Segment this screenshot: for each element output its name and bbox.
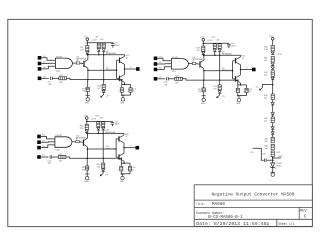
negative supply arrow [102, 172, 104, 173]
transistor Q11 MPS6534A (PNP) [83, 140, 84, 146]
diode CR5 [97, 49, 100, 52]
connector pad J2-3 [154, 68, 158, 72]
diode CR23 [271, 77, 274, 79]
svg-text:GND: GND [85, 181, 90, 183]
svg-text:470: 470 [213, 88, 216, 90]
resistor R14 470 [103, 79, 105, 81]
diode CR25 [271, 113, 274, 115]
ground [237, 93, 239, 96]
diode CR10 [219, 89, 221, 92]
svg-text:Date: 8/29/2013 11:59:45p: Date: 8/29/2013 11:59:45p [196, 222, 269, 227]
wire Q collector up [86, 133, 88, 138]
resistor R33 100 [87, 158, 89, 160]
svg-text:D5: D5 [43, 140, 45, 142]
resistor R32 47K [52, 156, 59, 158]
svg-text:+4.2V: +4.2V [91, 40, 97, 42]
svg-text:D4: D4 [159, 57, 161, 59]
diode CR10 [85, 130, 88, 132]
svg-text:D4: D4 [43, 135, 45, 137]
svg-text:.0047: .0047 [114, 124, 119, 126]
resistor R42 100 [271, 71, 274, 77]
svg-text:+4.2V: +4.2V [207, 40, 213, 42]
resistor R8 220 [86, 46, 89, 51]
svg-text:MPS6503A: MPS6503A [105, 147, 115, 150]
node output tap branch [253, 148, 264, 160]
svg-text:U2C: U2C [172, 71, 177, 73]
wire base resistor to Q base [79, 141, 83, 144]
svg-text:MPS6503A: MPS6503A [222, 53, 232, 56]
svg-text:100: 100 [265, 141, 268, 143]
resistor R45 100 [271, 137, 274, 143]
svg-text:100: 100 [264, 74, 267, 76]
diode CR24 [271, 103, 274, 105]
negative supply arrow [259, 88, 262, 91]
svg-text:74C08: 74C08 [55, 135, 62, 137]
zener diode CR40 [272, 157, 274, 164]
resistor R34 470 [102, 158, 104, 160]
svg-text:100: 100 [198, 91, 201, 93]
wire bottom rail [182, 79, 237, 80]
resistor R44 100 [271, 117, 274, 123]
svg-text:U2B: U2B [55, 149, 60, 151]
diode CR4 [86, 51, 89, 53]
svg-text:100: 100 [265, 148, 268, 150]
node output OUT2 [240, 69, 242, 71]
ground [121, 92, 123, 95]
title block [194, 185, 312, 227]
resistor R46 100 [271, 144, 274, 150]
wire Q collector up [203, 55, 205, 60]
svg-text:D6: D6 [43, 67, 45, 69]
wire emitter to base rail [87, 148, 116, 150]
resistor R43 100 [271, 94, 274, 100]
svg-text:R12: R12 [59, 75, 62, 77]
diode CR22 [271, 67, 274, 69]
svg-text:B-CO-MA580-B-1: B-CO-MA580-B-1 [208, 216, 243, 220]
capacitor C11 .001 [157, 78, 165, 80]
node tap branch [272, 84, 274, 86]
resistor R41 100 [271, 57, 274, 63]
resistor R47 100 [271, 151, 274, 157]
ground [120, 171, 122, 174]
capacitor C13 .001 [41, 156, 49, 158]
svg-text:Title:: Title: [196, 202, 205, 207]
transistor Q4 MPS6534A (PNP) [199, 61, 200, 67]
connector pad J2-4 [154, 77, 158, 81]
svg-text:.001: .001 [48, 84, 52, 86]
resistor R18 220 [202, 46, 205, 51]
svg-text:MPS6503A: MPS6503A [106, 52, 116, 55]
transistor Q7 MPS6534A (PNP) [83, 61, 84, 67]
wire Q collector up [87, 55, 89, 60]
svg-text:Sheet 1/1: Sheet 1/1 [278, 222, 294, 227]
ground [272, 167, 274, 172]
svg-text:R22: R22 [175, 76, 178, 78]
svg-text:Negative Output Converter MA58: Negative Output Converter MA580 [212, 191, 295, 197]
wire pad3 to gate input 3 [41, 145, 55, 148]
svg-text:MPS6503A: MPS6503A [105, 131, 115, 134]
wire bottom rail [66, 157, 121, 158]
ground [203, 92, 205, 96]
svg-text:100: 100 [82, 169, 85, 171]
capacitor C16 0.1uF [264, 159, 266, 162]
diode CR8 [213, 49, 216, 52]
wire base resistor to Q base [80, 62, 84, 65]
wire pad3 to gate input 3 [157, 67, 171, 70]
wire emitter to base rail [88, 69, 117, 71]
connector pad J1-2 [38, 62, 42, 66]
svg-text:GND: GND [85, 103, 90, 105]
diode CR20 [271, 52, 274, 54]
wire pad3 to gate input 3 [41, 66, 55, 69]
svg-text:2: 2 [246, 68, 247, 70]
resistor R28 220 [85, 124, 88, 129]
svg-text:C16: C16 [250, 152, 253, 154]
wire pad2 to gate input 2 [157, 63, 171, 65]
capacitor C9 .001 [41, 77, 49, 79]
wire Q emitter down [87, 68, 89, 79]
svg-text:2: 2 [130, 146, 131, 148]
capacitor C10 [121, 79, 123, 81]
base resistor R17 [188, 63, 192, 65]
capacitor C12 [237, 79, 239, 81]
connector pad J1-4 [38, 77, 42, 81]
negative supply arrow [103, 93, 105, 94]
svg-text:20: 20 [133, 91, 135, 93]
capacitor C12 .0047 [111, 120, 113, 123]
connector pad J3-1 [37, 135, 41, 139]
svg-text:100: 100 [264, 60, 267, 62]
svg-text:.0047: .0047 [231, 45, 236, 47]
AND gate U2B 74C08 [55, 137, 72, 148]
wire bottom rail [66, 78, 121, 79]
resistor R40 2.2K [271, 45, 274, 51]
diode CR13 [102, 167, 104, 170]
svg-text:220: 220 [80, 49, 83, 51]
resistor R12 47K [52, 77, 59, 79]
svg-text:220: 220 [196, 50, 199, 52]
svg-text:.001: .001 [47, 163, 51, 165]
svg-text:.001: .001 [164, 84, 168, 86]
resistor R30 1.0K [102, 122, 105, 127]
diode CR6 [102, 49, 105, 52]
svg-text:MPS6503A: MPS6503A [106, 69, 116, 72]
svg-text:47: 47 [242, 58, 244, 60]
sheet border frame [8, 19, 313, 226]
svg-text:2: 2 [130, 67, 131, 69]
wire pad1 to gate input 1 [41, 58, 55, 60]
node rail1 [87, 120, 113, 122]
svg-text:100: 100 [82, 91, 85, 93]
capacitor C13 [246, 85, 248, 88]
svg-text:74C08: 74C08 [172, 57, 179, 59]
svg-text:GND: GND [201, 103, 206, 105]
svg-text:1N752: 1N752 [276, 163, 282, 165]
diode CR7 [202, 52, 205, 54]
capacitor C8 .0047 [112, 42, 114, 45]
base resistor R27 [72, 141, 76, 143]
svg-text:.0047: .0047 [115, 45, 120, 47]
wire base resistor to Q base [196, 63, 200, 66]
svg-text:MPS6534A: MPS6534A [76, 136, 86, 139]
ground [87, 91, 89, 95]
svg-text:D6: D6 [43, 146, 45, 148]
wire emitter to base rail [204, 70, 233, 72]
svg-text:220: 220 [80, 128, 83, 130]
wire Q emitter down [203, 69, 205, 80]
wire Q emitter down [86, 147, 88, 158]
wire NPN base rail [232, 61, 234, 79]
node output OUT1 [124, 68, 126, 70]
connector pad J1-3 [38, 67, 42, 71]
resistor R10 1.0K [102, 43, 105, 48]
base resistor R7 [72, 62, 76, 64]
svg-text:R9: R9 [96, 37, 98, 39]
connector pad J1-1 [38, 56, 42, 60]
capacitor C10 .0047 [228, 42, 230, 45]
svg-text:U2A: U2A [56, 70, 61, 73]
svg-text:100: 100 [264, 98, 267, 100]
wire pad2 to gate input 2 [41, 62, 55, 64]
connector pad J2-1 [154, 57, 158, 61]
AND gate U2C 74C08 [171, 59, 188, 70]
svg-text:MPS6534A: MPS6534A [77, 58, 87, 61]
diode CR11 [97, 127, 100, 130]
ground [86, 170, 88, 174]
svg-text:CR40: CR40 [276, 166, 281, 168]
svg-text:D5: D5 [159, 62, 161, 64]
wire NPN base rail [115, 139, 117, 157]
connector pad J2-2 [154, 62, 158, 66]
wire pad2 to gate input 2 [41, 141, 55, 143]
connector pad J3-3 [37, 146, 41, 150]
wire NPN base rail [116, 60, 118, 78]
output pad OUT1 [136, 67, 140, 71]
resistor R23 100 [203, 79, 205, 81]
resistor R13 100 [87, 79, 89, 81]
node output OUT3 [123, 147, 125, 149]
resistor R20 1.0K [218, 44, 221, 49]
diode CR12 [102, 127, 105, 130]
connector pad J3-4 [37, 155, 41, 159]
wire pad1 to gate input 1 [157, 58, 171, 60]
wire pad1 to gate input 1 [41, 137, 55, 139]
negative supply arrow [219, 94, 221, 95]
svg-text:470: 470 [97, 167, 100, 169]
svg-text:+4.2V: +4.2V [91, 118, 97, 120]
svg-text:D6: D6 [159, 68, 161, 70]
node rail2 [203, 54, 240, 56]
capacitor C15 [129, 163, 131, 166]
node rail2 [87, 54, 124, 56]
svg-text:R32: R32 [59, 154, 62, 156]
diode CR27 [271, 132, 274, 134]
diode CR7 [103, 88, 105, 91]
svg-text:100: 100 [264, 121, 267, 123]
svg-text:MPS6534A: MPS6534A [193, 58, 203, 61]
AND gate U2A 74C08 [55, 58, 72, 69]
svg-text:GND: GND [120, 181, 125, 183]
svg-text:MPS6503A: MPS6503A [222, 69, 232, 72]
svg-text:1: 1 [270, 180, 271, 182]
svg-text:20: 20 [249, 91, 251, 93]
diode CR21 [271, 63, 274, 65]
svg-text:47: 47 [126, 57, 128, 59]
svg-text:D5: D5 [43, 62, 45, 64]
output pad OUT3 [136, 146, 140, 150]
svg-text:20: 20 [132, 169, 134, 171]
output pad OUT2 [252, 68, 256, 72]
svg-text:MA580: MA580 [212, 202, 226, 207]
node rail1 [87, 42, 113, 44]
connector pad J3-2 [37, 140, 41, 144]
svg-text:C: C [304, 214, 307, 219]
svg-text:Document Number:: Document Number: [196, 211, 224, 216]
svg-text:GND: GND [278, 156, 283, 158]
diode CR26 [271, 127, 274, 129]
resistor R22 47K [168, 78, 175, 80]
capacitor C14 [121, 158, 123, 160]
svg-text:REV:: REV: [300, 209, 309, 213]
diode CR9 [218, 49, 221, 52]
svg-text:470: 470 [97, 88, 100, 90]
node rail1 [203, 42, 229, 44]
wire gnd stub [273, 157, 281, 159]
svg-text:GND: GND [236, 103, 241, 105]
node rail2 [87, 132, 124, 134]
capacitor C11 [130, 84, 132, 87]
svg-text:47: 47 [126, 136, 128, 138]
svg-text:R47: R47 [277, 152, 280, 154]
resistor R24 470 [219, 79, 221, 81]
svg-text:GND: GND [120, 103, 125, 105]
svg-text:+1.2V: +1.2V [277, 54, 283, 56]
svg-text:D4: D4 [43, 56, 45, 58]
svg-text:74C08: 74C08 [56, 56, 63, 58]
